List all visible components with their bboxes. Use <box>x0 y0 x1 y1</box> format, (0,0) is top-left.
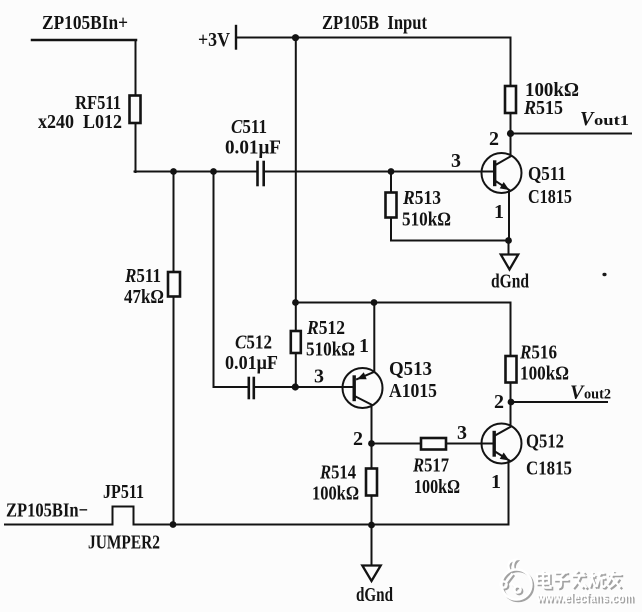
svg-text:out2: out2 <box>584 387 611 403</box>
svg-text:ZP105B Input: ZP105B Input <box>322 12 427 34</box>
node mid bus left (295.5,302.5) <box>292 299 299 306</box>
node R513 top junction <box>390 172 392 193</box>
svg-text:www.elecfans.com: www.elecfans.com <box>536 590 634 605</box>
svg-text:R517: R517 <box>412 455 449 477</box>
svg-text:R512: R512 <box>306 317 345 339</box>
svg-text:510kΩ: 510kΩ <box>306 339 355 361</box>
svg-text:Q511: Q511 <box>528 163 566 185</box>
svg-text:2: 2 <box>494 391 504 413</box>
capacitor C512 <box>249 378 254 398</box>
wire R513 to emitter node <box>391 240 509 242</box>
wire R516 bottom lead <box>510 383 512 403</box>
wire Vout2 <box>511 401 607 403</box>
wire C512 to Q513 base <box>255 386 354 388</box>
wire Q511 emitter vertical <box>508 191 510 241</box>
node junction dot (213.5,171.5) <box>210 168 217 175</box>
resistor R512 <box>291 331 301 353</box>
wire node2 to R517 <box>372 443 422 445</box>
svg-text:x240 L012: x240 L012 <box>38 111 122 133</box>
wire ground 1 stem <box>508 241 510 255</box>
wire C511 to Q511 base <box>265 171 494 173</box>
svg-text:3: 3 <box>451 150 461 172</box>
svg-text:1: 1 <box>494 201 504 223</box>
wire R517 to Q512 base <box>446 443 494 445</box>
wire R516 top lead <box>510 303 512 357</box>
node R513 base (391,171.5) <box>388 168 395 175</box>
node Vout1 (510.5,133.5) <box>507 130 514 137</box>
svg-text:R513: R513 <box>402 187 441 209</box>
svg-text:C1815: C1815 <box>528 186 572 208</box>
wire ZP105BIn- lead <box>5 524 113 526</box>
svg-text:dGnd: dGnd <box>491 271 529 293</box>
resistor RF511 <box>130 96 141 124</box>
svg-text:0.01μF: 0.01μF <box>225 137 281 159</box>
svg-text:R516: R516 <box>519 342 557 364</box>
wire Q512 emitter vertical <box>508 461 510 525</box>
transistor Q513 <box>343 368 383 408</box>
transistor Q511 <box>482 153 522 193</box>
resistor R513 <box>386 193 397 218</box>
svg-text:100kΩ: 100kΩ <box>312 483 359 505</box>
node emitter/ground 1 (508.5,240.5) <box>505 237 512 244</box>
node ground 2 (371.5,525) <box>368 522 375 529</box>
wire Vout1 <box>511 133 632 135</box>
svg-text:ZP105BIn−: ZP105BIn− <box>6 500 88 522</box>
svg-text:R514: R514 <box>319 462 356 484</box>
wire +3V vertical drop <box>295 38 297 303</box>
watermark white face layer <box>500 560 634 605</box>
wire RF511 bottom vertical <box>135 123 137 172</box>
node C512 R512 (295.3,387) <box>292 383 299 390</box>
svg-text:Q513: Q513 <box>389 358 432 380</box>
svg-text:out1: out1 <box>594 113 629 129</box>
node junction dot +3V (295.5,37.5) <box>292 34 299 41</box>
watermark elecfans (embossed: gray shadow + white face) <box>500 560 635 607</box>
wire R514 top lead <box>371 444 373 469</box>
node Vout2 (511,402) <box>508 399 515 406</box>
svg-text:Q512: Q512 <box>526 431 564 453</box>
ground dGnd 1 <box>501 255 518 270</box>
svg-text:C511: C511 <box>231 116 267 138</box>
svg-text:3: 3 <box>314 366 324 388</box>
svg-text:V: V <box>570 382 585 404</box>
wire R514 bottom lead <box>371 496 373 526</box>
wire Q512 collector vertical <box>510 402 512 426</box>
svg-text:3: 3 <box>457 422 467 444</box>
svg-text:2: 2 <box>489 128 499 150</box>
node junction dot (173.5,171.5) <box>170 168 177 175</box>
resistor R512 leads <box>295 303 297 388</box>
svg-text:ZP105BIn+: ZP105BIn+ <box>42 12 128 34</box>
resistor R511 <box>168 272 180 297</box>
svg-text:+3V: +3V <box>198 29 230 51</box>
wire bottom bus <box>134 524 509 526</box>
svg-text:1: 1 <box>359 335 369 357</box>
node Q513 collector (371.5,443.5) <box>368 440 375 447</box>
svg-text:0.01μF: 0.01μF <box>225 352 278 374</box>
svg-text:JP511: JP511 <box>103 481 144 503</box>
svg-text:1: 1 <box>491 471 501 493</box>
svg-text:R511: R511 <box>124 265 161 287</box>
svg-text:C1815: C1815 <box>526 458 572 480</box>
svg-text:A1015: A1015 <box>389 380 437 402</box>
capacitor C511 <box>258 162 264 185</box>
svg-text:47kΩ: 47kΩ <box>124 286 164 308</box>
svg-text:R515: R515 <box>523 97 563 119</box>
wire ZP105BIn+ lead <box>32 39 136 42</box>
watermark shadow layer <box>502 562 636 607</box>
wire Q513 collector vertical <box>371 405 373 444</box>
svg-text:dGnd: dGnd <box>356 584 393 606</box>
svg-text:V: V <box>580 108 595 130</box>
resistor R515 <box>505 86 516 113</box>
wire middle bus <box>296 302 511 304</box>
transistor Q512 <box>482 424 522 464</box>
svg-text:C512: C512 <box>235 332 272 354</box>
wire R515 bottom lead to Vout1 node <box>510 113 512 155</box>
wire Q513 emitter vertical <box>373 303 375 372</box>
wire ground 2 stem <box>371 525 373 565</box>
svg-text:JUMPER2: JUMPER2 <box>88 532 160 554</box>
node mid bus Q513 (374,302.5) <box>371 299 378 306</box>
ground dGnd 2 <box>362 566 380 582</box>
power +3V bar <box>235 26 237 49</box>
svg-text:100kΩ: 100kΩ <box>520 363 569 385</box>
wire base bus left <box>135 171 257 173</box>
wire R513 bottom lead <box>390 218 392 241</box>
svg-text:2: 2 <box>353 428 363 450</box>
svg-text:100kΩ: 100kΩ <box>414 476 460 498</box>
svg-text:510kΩ: 510kΩ <box>402 209 451 231</box>
resistor R516 <box>506 356 517 383</box>
jumper JP511 <box>113 507 134 525</box>
wire top bus <box>236 37 511 39</box>
resistor R514 <box>366 469 377 496</box>
wire R511 branch upper <box>173 172 175 273</box>
speck <box>602 273 606 276</box>
wire R511 branch lower <box>173 297 175 525</box>
wire R515 top lead <box>510 38 512 87</box>
wire C512 branch vertical <box>214 172 248 388</box>
wire RF511 top vertical <box>135 40 137 96</box>
resistor R517 <box>421 438 446 450</box>
node jumper R511 (173,524.5) <box>170 521 177 528</box>
